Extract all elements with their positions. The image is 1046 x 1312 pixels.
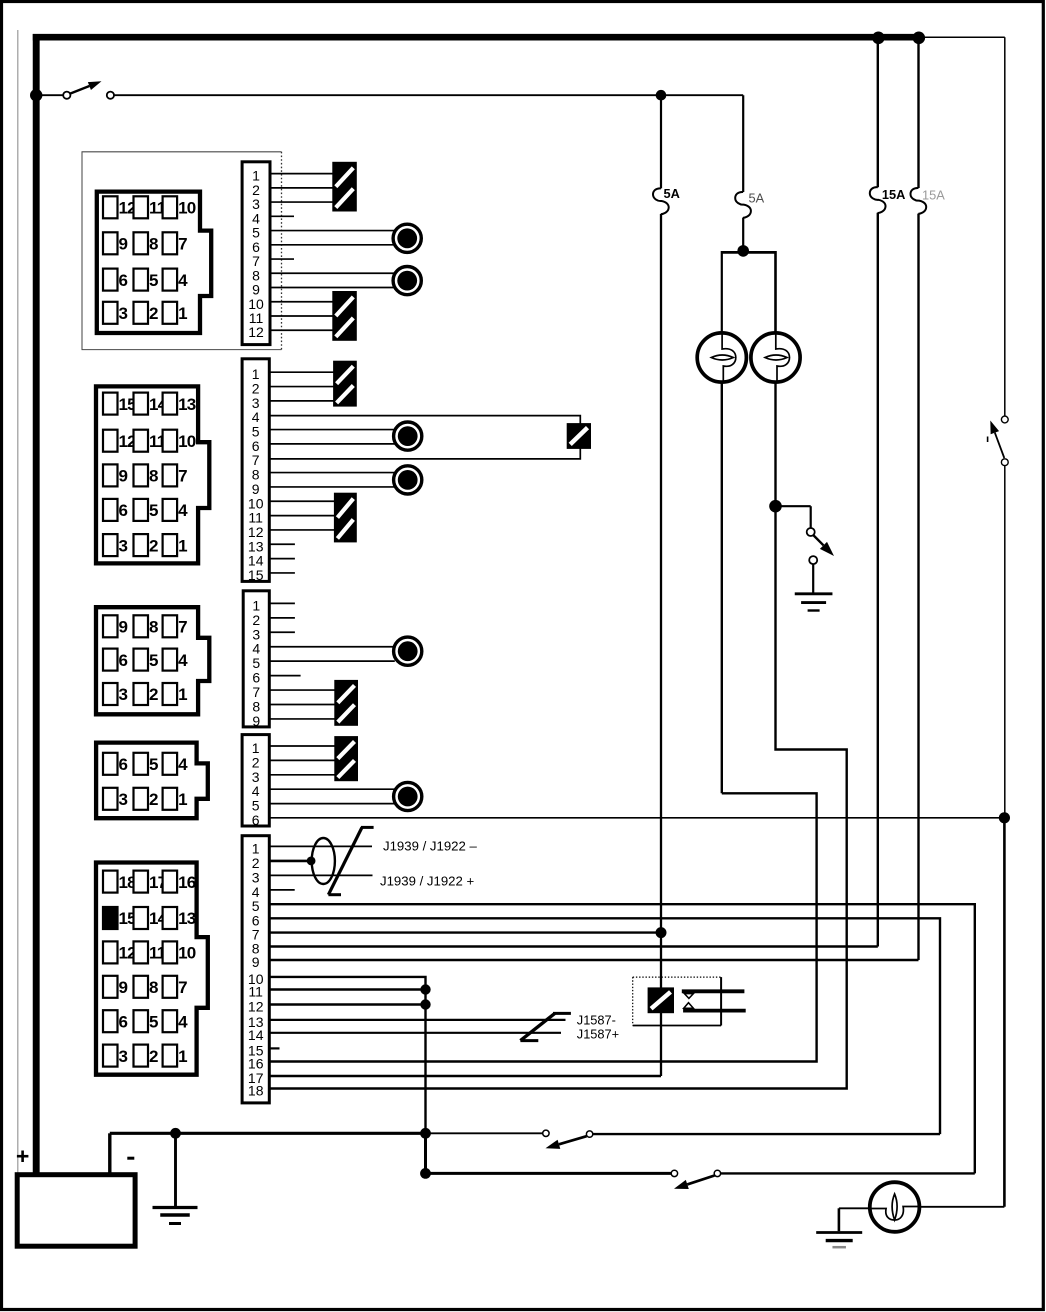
svg-text:5: 5 — [149, 651, 158, 670]
svg-text:15A: 15A — [882, 187, 905, 202]
svg-text:2: 2 — [149, 685, 158, 704]
svg-text:5: 5 — [149, 1012, 158, 1031]
svg-text:4: 4 — [178, 1012, 188, 1031]
svg-text:6: 6 — [119, 501, 128, 520]
svg-text:10: 10 — [178, 944, 196, 963]
svg-text:13: 13 — [178, 395, 196, 414]
svg-text:9: 9 — [119, 618, 128, 637]
svg-text:3: 3 — [119, 304, 128, 323]
svg-text:5: 5 — [149, 501, 158, 520]
svg-text:4: 4 — [178, 755, 188, 774]
svg-text:8: 8 — [149, 978, 158, 997]
svg-text:12: 12 — [248, 999, 264, 1015]
svg-text:11: 11 — [248, 984, 263, 1000]
svg-text:6: 6 — [119, 1012, 128, 1031]
svg-text:5A: 5A — [749, 190, 765, 205]
svg-text:J1587-: J1587- — [577, 1013, 616, 1028]
svg-text:1: 1 — [178, 685, 187, 704]
svg-text:4: 4 — [178, 271, 188, 290]
svg-text:3: 3 — [119, 536, 128, 555]
svg-text:5A: 5A — [664, 186, 680, 201]
svg-text:10: 10 — [178, 432, 196, 451]
svg-text:1: 1 — [178, 304, 187, 323]
svg-text:8: 8 — [149, 235, 158, 254]
svg-text:3: 3 — [119, 1047, 128, 1066]
svg-text:2: 2 — [149, 790, 158, 809]
svg-text:10: 10 — [178, 199, 196, 218]
svg-text:13: 13 — [178, 909, 196, 928]
svg-text:1: 1 — [178, 1047, 187, 1066]
svg-text:7: 7 — [178, 235, 187, 254]
svg-text:J1939 / J1922 –: J1939 / J1922 – — [383, 838, 478, 853]
svg-text:9: 9 — [119, 467, 128, 486]
svg-text:15A: 15A — [922, 187, 945, 202]
svg-text:6: 6 — [252, 812, 260, 828]
svg-text:3: 3 — [119, 685, 128, 704]
svg-text:J1939 / J1922 +: J1939 / J1922 + — [380, 874, 475, 889]
svg-text:18: 18 — [248, 1083, 264, 1099]
svg-text:7: 7 — [178, 978, 187, 997]
svg-text:9: 9 — [119, 235, 128, 254]
svg-text:2: 2 — [149, 304, 158, 323]
svg-text:6: 6 — [119, 651, 128, 670]
svg-text:14: 14 — [248, 1027, 264, 1043]
svg-text:2: 2 — [149, 536, 158, 555]
svg-text:4: 4 — [178, 651, 188, 670]
svg-text:12: 12 — [248, 324, 264, 340]
svg-text:15: 15 — [248, 567, 264, 583]
svg-text:6: 6 — [119, 271, 128, 290]
svg-text:J1587+: J1587+ — [577, 1027, 619, 1042]
svg-text:3: 3 — [119, 790, 128, 809]
svg-text:9: 9 — [119, 978, 128, 997]
svg-text:2: 2 — [149, 1047, 158, 1066]
svg-text:9: 9 — [252, 954, 260, 970]
svg-text:6: 6 — [119, 755, 128, 774]
svg-text:5: 5 — [149, 755, 158, 774]
svg-text:9: 9 — [252, 713, 260, 729]
svg-text:16: 16 — [178, 873, 196, 892]
svg-text:8: 8 — [149, 618, 158, 637]
svg-text:4: 4 — [178, 501, 188, 520]
svg-text:1: 1 — [178, 790, 187, 809]
svg-text:8: 8 — [149, 467, 158, 486]
svg-text:5: 5 — [149, 271, 158, 290]
svg-text:7: 7 — [178, 618, 187, 637]
svg-text:1: 1 — [178, 536, 187, 555]
svg-text:7: 7 — [178, 467, 187, 486]
